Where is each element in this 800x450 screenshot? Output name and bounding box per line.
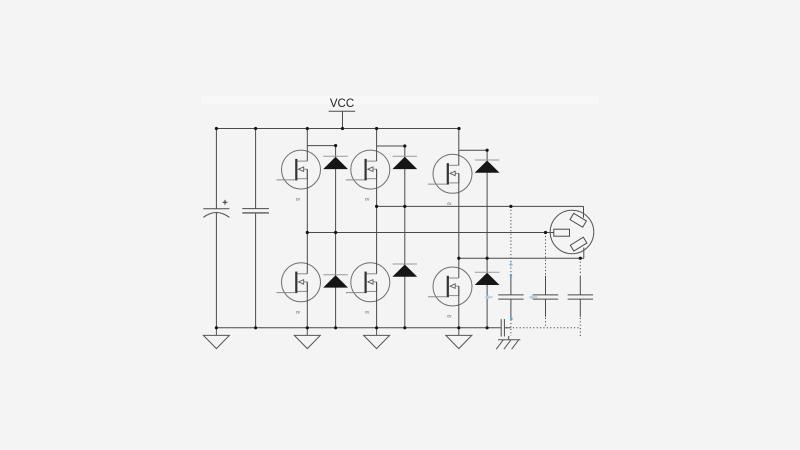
svg-text:VCC: VCC bbox=[330, 98, 354, 110]
